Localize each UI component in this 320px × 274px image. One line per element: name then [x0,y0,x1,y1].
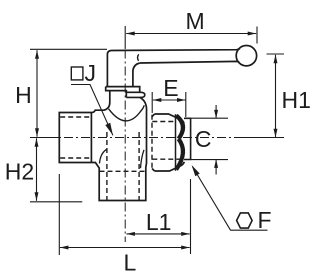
svg-text:H: H [15,82,32,108]
svg-text:H1: H1 [281,87,310,113]
svg-text:M: M [186,8,205,34]
svg-text:F: F [257,207,271,233]
svg-text:J: J [84,60,96,86]
svg-text:L1: L1 [146,209,172,235]
svg-text:H2: H2 [5,158,34,184]
svg-text:E: E [163,75,178,101]
svg-text:L: L [124,249,137,274]
svg-text:C: C [195,126,212,152]
